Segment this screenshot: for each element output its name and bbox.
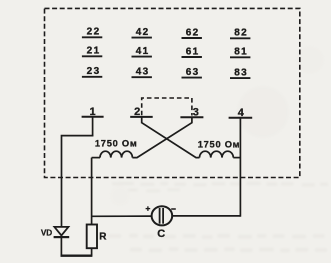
contact 63: [182, 67, 202, 78]
svg-text:63: 63: [186, 67, 200, 78]
contact 21: [82, 46, 102, 57]
contact 62: [182, 27, 202, 38]
svg-text:C: C: [157, 228, 165, 240]
contact 22: [82, 27, 102, 38]
svg-text:43: 43: [136, 67, 150, 78]
scan ghosting (faint print-through): [108, 46, 328, 252]
svg-text:VD: VD: [41, 228, 52, 237]
pin 3: [180, 106, 203, 123]
contact 43: [132, 67, 152, 78]
polarity −: [171, 208, 176, 210]
contact 23: [82, 66, 102, 77]
svg-text:83: 83: [234, 67, 248, 78]
diode VD: [54, 227, 70, 256]
contact 42: [132, 27, 152, 38]
dashed link between pins 2 and 3: [142, 98, 192, 116]
bottom wire (diode to resistor): [61, 255, 93, 257]
capacitor C: [152, 206, 173, 225]
polarity +: [146, 206, 151, 211]
svg-text:23: 23: [87, 66, 101, 77]
contact 41: [132, 46, 152, 57]
contact 82: [230, 28, 250, 39]
contact 83: [230, 67, 250, 78]
coil L1 (left winding): [92, 151, 133, 157]
resistor bottom lead: [91, 248, 93, 256]
svg-text:1750 Ом: 1750 Ом: [198, 139, 241, 149]
svg-text:R: R: [99, 232, 107, 243]
svg-text:61: 61: [186, 46, 200, 57]
pin 2: [130, 106, 153, 123]
wire node to capacitor (left lead): [92, 215, 152, 217]
coil L2 (right winding): [200, 151, 241, 157]
svg-text:62: 62: [186, 27, 200, 38]
wire capacitor to pin 4 (right lead): [172, 215, 240, 217]
svg-text:21: 21: [87, 46, 101, 57]
svg-text:82: 82: [234, 28, 248, 39]
relay case outline (dashed): [45, 8, 300, 177]
wire pin1 down-left to diode branch: [62, 135, 93, 227]
svg-text:1750 Ом: 1750 Ом: [95, 139, 138, 149]
wire pin 4 stem down to capacitor lead: [239, 118, 241, 217]
pin 1: [82, 106, 104, 136]
svg-text:81: 81: [234, 47, 248, 58]
resistor R: [87, 225, 97, 249]
wire pin3 diagonal to coil L1: [132, 123, 192, 158]
pin 4: [229, 107, 253, 119]
wire pin2 diagonal to coil L2: [142, 123, 200, 158]
contact 61: [182, 46, 202, 57]
svg-text:41: 41: [136, 46, 150, 57]
contact 81: [230, 47, 250, 58]
svg-text:42: 42: [136, 27, 150, 38]
svg-text:22: 22: [87, 27, 101, 38]
wire L1 left terminal down to node (R / C branch): [91, 158, 93, 225]
